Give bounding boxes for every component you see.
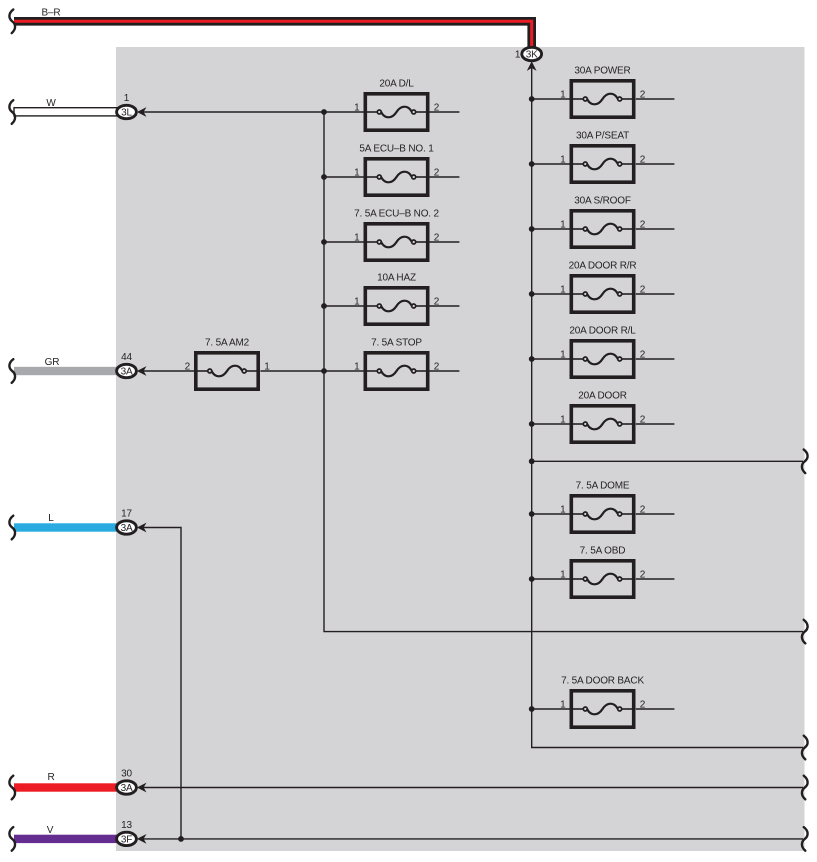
wire stub right of right fuse y=164 [636, 163, 675, 165]
fuse box panel [116, 47, 805, 851]
wire: right bus branch y=164 [532, 163, 570, 165]
arrow into connector 3A [137, 366, 147, 376]
svg-text:2: 2 [434, 297, 440, 308]
svg-text:44: 44 [121, 352, 132, 363]
wire: middle bus branch y=177 [324, 176, 364, 178]
junction node (531.7,294) [529, 291, 535, 297]
wire stub right of right fuse y=99 [636, 98, 675, 100]
svg-text:2: 2 [640, 155, 646, 166]
connector 3A pin 17 [117, 509, 147, 535]
svg-text:1: 1 [560, 285, 566, 296]
connector 3L pin 1 [117, 93, 147, 119]
wire: right bus branch y=294 [532, 293, 570, 295]
junction node (181,838.9) [178, 836, 184, 842]
svg-text:1: 1 [560, 350, 566, 361]
svg-text:1: 1 [354, 362, 360, 373]
wire: middle bus branch y=306 [324, 305, 364, 307]
wire: connector 3L row to fuse 20A D/L pin 1 [140, 111, 364, 113]
fuse 7. 5A STOP [354, 337, 440, 389]
fuse 30A P/SEAT [560, 130, 646, 182]
connector 3F pin 13 [117, 820, 147, 846]
wire break symbol at (804.5,747.5) [802, 736, 808, 760]
fuse 30A POWER [560, 65, 646, 117]
junction node (324,371) [321, 368, 327, 374]
arrow into connector 3K [527, 61, 537, 71]
wire break symbol at (12.5,371) [9, 359, 15, 383]
svg-text:2: 2 [434, 233, 440, 244]
junction node (531.7,461.3) [529, 458, 535, 464]
fuse 7. 5A DOME [560, 480, 646, 532]
junction node (531.7,99) [529, 96, 535, 102]
svg-text:20A DOOR: 20A DOOR [578, 390, 627, 401]
wire break symbol at (12.5,527.5) [9, 516, 15, 540]
svg-text:20A DOOR R/L: 20A DOOR R/L [569, 325, 636, 336]
svg-text:5A ECU–B NO. 1: 5A ECU–B NO. 1 [359, 143, 434, 154]
svg-text:3F: 3F [121, 834, 132, 845]
wire V (violet) [14, 835, 126, 843]
svg-text:1: 1 [354, 168, 360, 179]
wire stub right of middle fuse y=112 [429, 111, 459, 113]
svg-text:1: 1 [264, 362, 270, 373]
wire: right bus branch y=709 [532, 708, 570, 710]
svg-text:13: 13 [121, 820, 132, 831]
wire stub right of middle fuse y=177 [429, 176, 459, 178]
fuse 7. 5A OBD [560, 545, 646, 597]
svg-text:1: 1 [560, 570, 566, 581]
fuse 7. 5A DOOR BACK [560, 675, 646, 727]
wire stub right of right fuse y=229 [636, 228, 675, 230]
fuse 20A DOOR [560, 390, 646, 442]
junction node (531.7,579) [529, 576, 535, 582]
wire: right bus branch y=579 [532, 578, 570, 580]
wire break symbol at (12.5,21.3) [9, 10, 15, 34]
wire stub right of middle fuse y=306 [429, 305, 459, 307]
svg-text:2: 2 [640, 350, 646, 361]
svg-text:2: 2 [185, 362, 191, 373]
svg-text:2: 2 [640, 700, 646, 711]
wire W (white, outlined) [14, 108, 120, 116]
fuse 10A HAZ [354, 272, 440, 324]
svg-text:R: R [47, 772, 54, 783]
wire stub right of middle fuse y=371 [429, 370, 459, 372]
wire break symbol at (804.5,838.9) [802, 827, 808, 851]
wire break symbol at (12.5,838.9) [9, 827, 15, 851]
junction node (324,242) [321, 239, 327, 245]
svg-text:1: 1 [124, 93, 130, 104]
wire: connector 3A(R) row to right edge [140, 787, 803, 789]
svg-text:2: 2 [434, 168, 440, 179]
svg-text:L: L [48, 513, 54, 524]
svg-text:3K: 3K [526, 49, 538, 60]
svg-text:3L: 3L [121, 107, 132, 118]
svg-text:7. 5A DOME: 7. 5A DOME [576, 480, 630, 491]
svg-text:30A S/ROOF: 30A S/ROOF [574, 195, 631, 206]
svg-text:B–R: B–R [42, 8, 61, 19]
svg-text:1: 1 [354, 297, 360, 308]
svg-text:2: 2 [640, 90, 646, 101]
junction node (531.7,164) [529, 161, 535, 167]
arrow into connector 3L [137, 107, 147, 117]
wire B-R (black/red) from break to connector 3K [14, 21, 532, 49]
junction node (531.7,359) [529, 356, 535, 362]
junction node (324,177) [321, 174, 327, 180]
wire stub right of right fuse y=294 [636, 293, 675, 295]
svg-text:7. 5A DOOR BACK: 7. 5A DOOR BACK [561, 675, 644, 686]
svg-text:30A P/SEAT: 30A P/SEAT [576, 130, 629, 141]
wire: AM2 pin 1 to fuse 7.5A STOP pin 1 [260, 370, 363, 372]
wire stub right of middle fuse y=242 [429, 241, 459, 243]
junction node (324,306) [321, 303, 327, 309]
svg-text:2: 2 [434, 103, 440, 114]
wire break symbol at (804.5,631.6) [802, 620, 808, 644]
wire stub right of right fuse y=424 [636, 423, 675, 425]
svg-text:1: 1 [515, 50, 521, 61]
junction node (531.7,229) [529, 226, 535, 232]
svg-text:7. 5A OBD: 7. 5A OBD [580, 545, 626, 556]
svg-text:V: V [47, 825, 54, 836]
wire: right bus branch y=99 [532, 98, 570, 100]
fuse 30A S/ROOF [560, 195, 646, 247]
svg-text:2: 2 [640, 570, 646, 581]
svg-text:3A: 3A [121, 366, 133, 377]
fuse 7. 5A AM2 [185, 337, 271, 389]
svg-text:GR: GR [45, 357, 60, 368]
wire stub right of right fuse y=579 [636, 578, 675, 580]
wire: connector 3F(V) row to right edge [140, 838, 803, 840]
junction node (531.7,709) [529, 706, 535, 712]
wire: middle bus branch y=242 [324, 241, 364, 243]
wire: connector 3A(GR) to fuse AM2 pin 2 [140, 370, 194, 372]
svg-text:1: 1 [560, 90, 566, 101]
svg-text:1: 1 [560, 505, 566, 516]
svg-text:1: 1 [560, 220, 566, 231]
svg-text:W: W [46, 98, 56, 109]
junction node (531.7,514) [529, 511, 535, 517]
svg-text:2: 2 [640, 285, 646, 296]
wire: middle vertical bus with bottom run to right edge [324, 112, 803, 632]
wire: right vertical bus from 3K with bottom run to right edge [532, 64, 803, 748]
svg-text:2: 2 [434, 362, 440, 373]
fuse 20A DOOR R/R [560, 260, 646, 312]
wire: right bus branch y=229 [532, 228, 570, 230]
svg-text:1: 1 [354, 103, 360, 114]
wire stub right of right fuse y=514 [636, 513, 675, 515]
wire stub right of right fuse y=359 [636, 358, 675, 360]
wire: right bus to right edge y=461 [532, 460, 803, 462]
fuse 20A DOOR R/L [560, 325, 646, 377]
svg-text:1: 1 [560, 700, 566, 711]
svg-text:2: 2 [640, 505, 646, 516]
arrow into connector 3F [137, 834, 147, 844]
connector 3A pin 30 [117, 769, 147, 795]
wire break symbol at (12.5,112) [9, 100, 15, 124]
wire stub right of right fuse y=709 [636, 708, 675, 710]
svg-text:7. 5A ECU–B NO. 2: 7. 5A ECU–B NO. 2 [354, 208, 439, 219]
wire R (red) [14, 783, 126, 791]
arrow into connector 3A [137, 783, 147, 793]
wire: connector 3A(L) run right then down to V row [140, 528, 181, 839]
svg-text:30: 30 [121, 769, 132, 780]
svg-text:3A: 3A [121, 523, 133, 534]
junction node (324,112) [321, 109, 327, 115]
wire break symbol at (804.5,787.5) [802, 776, 808, 800]
wire: right bus branch y=514 [532, 513, 570, 515]
fuse 20A D/L [354, 78, 440, 130]
svg-text:30A POWER: 30A POWER [574, 65, 630, 76]
svg-text:1: 1 [560, 415, 566, 426]
wire break symbol at (804.5,461.3) [802, 450, 808, 474]
wire L (blue) [14, 523, 126, 531]
wire break symbol at (12.5,787.5) [9, 776, 15, 800]
svg-text:17: 17 [121, 509, 132, 520]
fuse 7. 5A ECU&#8211;B NO. 2 [354, 208, 440, 260]
fuse 5A ECU&#8211;B NO. 1 [354, 143, 440, 195]
svg-text:20A D/L: 20A D/L [379, 78, 414, 89]
svg-text:7. 5A AM2: 7. 5A AM2 [205, 337, 250, 348]
svg-text:20A DOOR R/R: 20A DOOR R/R [569, 260, 637, 271]
svg-text:3A: 3A [121, 783, 133, 794]
wire: right bus branch y=359 [532, 358, 570, 360]
svg-text:10A HAZ: 10A HAZ [377, 272, 416, 283]
svg-text:2: 2 [640, 220, 646, 231]
wire GR (gray) [14, 367, 126, 375]
arrow into connector 3A [137, 523, 147, 533]
connector 3K pin 1 (top) [515, 47, 542, 71]
svg-text:7. 5A STOP: 7. 5A STOP [371, 337, 422, 348]
svg-text:2: 2 [640, 415, 646, 426]
junction node (531.7,424) [529, 421, 535, 427]
connector 3A pin 44 [117, 352, 147, 378]
svg-text:1: 1 [354, 233, 360, 244]
wire: right bus branch y=424 [532, 423, 570, 425]
svg-text:1: 1 [560, 155, 566, 166]
